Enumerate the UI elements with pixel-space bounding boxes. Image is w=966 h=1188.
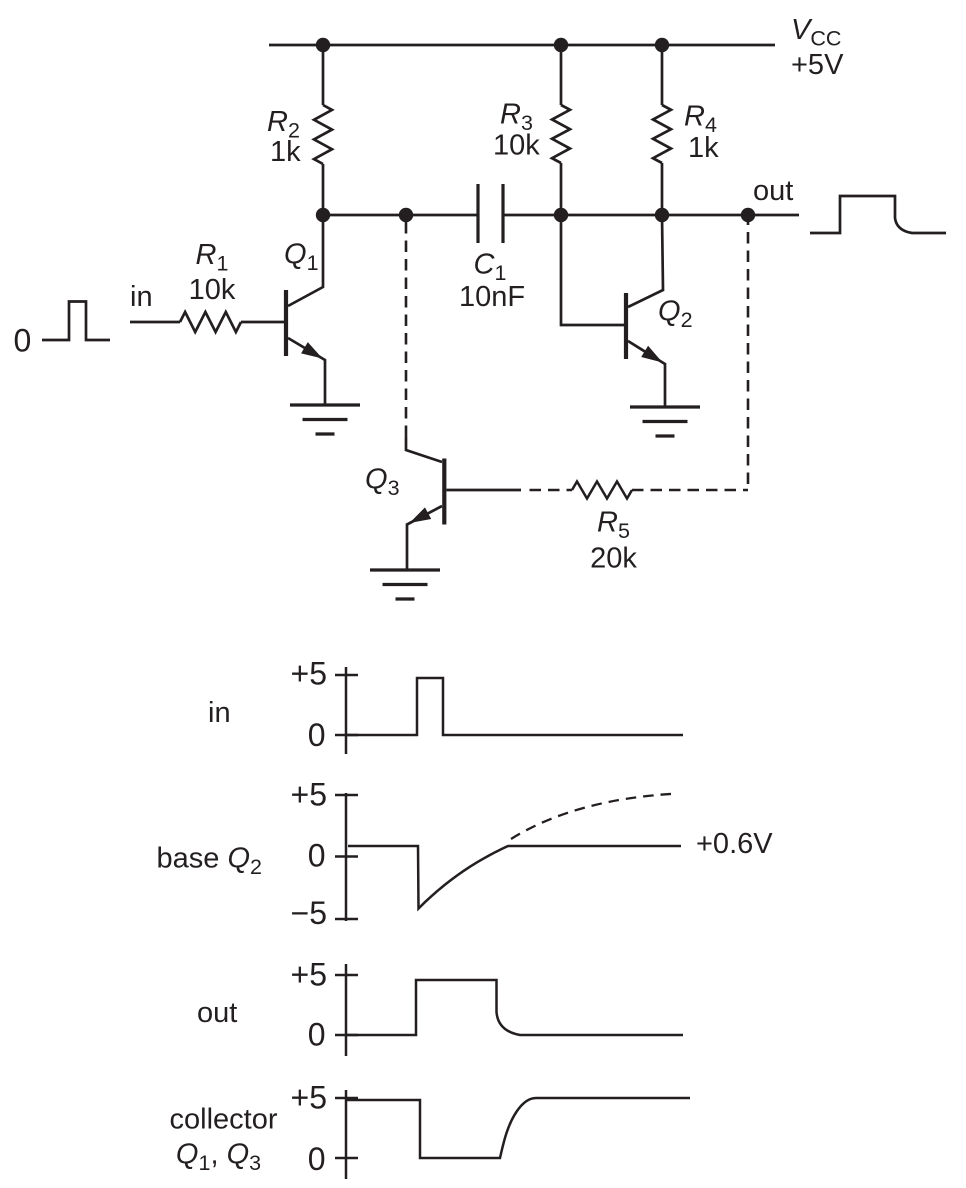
R5 value label 20k	[590, 543, 637, 575]
resistor R4	[653, 105, 671, 163]
waveform 1 +5 label	[291, 656, 327, 692]
C1 label	[474, 249, 507, 286]
transistor Q3 base bar	[442, 459, 446, 525]
svg-text:0: 0	[308, 838, 326, 874]
waveform 2 +0.6V label	[696, 828, 773, 860]
capacitor C1 left plate	[476, 184, 479, 243]
svg-text:+5: +5	[291, 1080, 327, 1116]
svg-text:0: 0	[308, 717, 326, 753]
ground (Q2 emitter)	[630, 407, 700, 436]
R1 label	[196, 239, 229, 276]
out net label	[753, 175, 793, 207]
svg-text:1k: 1k	[270, 136, 301, 168]
waveform 1 +5 tick	[335, 674, 358, 677]
junction dot: Vcc-R2	[316, 38, 330, 52]
svg-text:Q1: Q1	[284, 239, 319, 276]
svg-text:in: in	[208, 697, 231, 729]
transistor Q1 base bar	[284, 290, 288, 356]
waveform 1 0 tick	[335, 734, 358, 737]
wire: input to R1	[130, 321, 180, 324]
junction dot: Vcc-R3	[554, 38, 568, 52]
svg-text:base Q2: base Q2	[157, 843, 262, 880]
Q3 label	[365, 464, 400, 501]
svg-text:20k: 20k	[590, 543, 637, 575]
waveform 3 +5 label	[291, 957, 327, 993]
resistor R5	[572, 482, 632, 499]
waveform 3 0 label	[308, 1017, 326, 1053]
wire (dashed): node A2 to Q3 collector	[405, 222, 408, 437]
wire (dashed): R5 to out node	[632, 489, 748, 492]
waveform 1 label in	[208, 697, 231, 729]
wire: C1 to out terminal	[503, 214, 799, 217]
wire: node A to C1	[323, 214, 478, 217]
svg-text:10nF: 10nF	[459, 281, 525, 313]
transistor Q3 collector	[406, 437, 442, 462]
waveform 2 trace (base Q2)	[348, 846, 681, 909]
waveform 2 axis	[345, 793, 348, 921]
waveform 2 +5 label	[291, 777, 327, 813]
svg-text:Q2: Q2	[658, 296, 693, 333]
waveform 3 0 tick	[335, 1034, 358, 1037]
wire: Vcc to R4	[661, 45, 664, 105]
waveform 3 axis	[345, 964, 348, 1056]
output pulse waveform sketch	[810, 196, 946, 233]
junction dot: node B (C1-R3-Q2 base)	[554, 208, 568, 222]
waveform 4 +5 tick	[335, 1097, 358, 1100]
svg-text:out: out	[753, 175, 793, 207]
resistor R3	[552, 105, 570, 163]
waveform 3 +5 tick	[335, 974, 358, 977]
svg-text:+5: +5	[291, 777, 327, 813]
R3 value label 10k	[493, 130, 540, 162]
wire: Vcc to R2	[322, 45, 325, 105]
Vcc label	[791, 14, 844, 81]
resistor R1	[180, 312, 241, 332]
capacitor C1 right plate	[501, 184, 504, 243]
R2 label	[267, 106, 300, 143]
svg-text:−5: −5	[291, 895, 327, 931]
R4 value label 1k	[688, 132, 719, 164]
svg-text:+5: +5	[291, 656, 327, 692]
R3 label	[500, 99, 533, 136]
waveform 4 +5 label	[291, 1080, 327, 1116]
waveform 2 label base Q2	[157, 843, 262, 880]
waveform 2 dashed recovery curve	[511, 794, 678, 840]
junction dot: node A2 (to Q3 collector)	[399, 208, 413, 222]
transistor Q1 emitter	[288, 338, 325, 405]
waveform 4 label collector	[170, 1104, 278, 1136]
svg-text:0: 0	[308, 1017, 326, 1053]
svg-text:R5: R5	[597, 507, 630, 544]
R2 value label 1k	[270, 136, 301, 168]
waveform 4 0 tick	[335, 1157, 358, 1160]
transistor Q3 emitter	[407, 506, 442, 570]
wire (dashed): out node down to R5	[747, 222, 750, 484]
transistor Q3 emitter arrow	[410, 507, 432, 523]
waveform 4 label Q1,Q3	[176, 1139, 261, 1176]
input 0-level label	[14, 323, 32, 359]
R4 label	[684, 101, 717, 138]
transistor Q2 emitter	[628, 341, 665, 407]
wire: Vcc supply rail	[269, 44, 775, 47]
svg-text:VCC: VCC	[791, 14, 841, 51]
waveform 1 axis	[345, 667, 348, 754]
R1 value label 10k	[189, 274, 236, 306]
waveform 4 0 label	[308, 1141, 326, 1177]
wire: R2 to node A	[322, 164, 325, 215]
resistor R2	[314, 105, 332, 164]
waveform 2 -5 label	[291, 895, 327, 931]
transistor Q2 emitter arrow	[641, 346, 662, 363]
junction dot: out node	[741, 208, 755, 222]
Q1 label	[284, 239, 319, 276]
in net label	[130, 281, 153, 313]
C1 value label 10nF	[459, 281, 525, 313]
svg-text:0: 0	[308, 1141, 326, 1177]
svg-text:+5: +5	[291, 957, 327, 993]
svg-text:+5V: +5V	[791, 49, 844, 81]
wire (dashed): Q3 base to R5	[530, 489, 573, 492]
waveform 2 0 label	[308, 838, 326, 874]
svg-text:10k: 10k	[189, 274, 236, 306]
svg-text:Q1, Q3: Q1, Q3	[176, 1139, 261, 1176]
wire: R1 to Q1 base	[241, 321, 284, 324]
svg-text:collector: collector	[170, 1104, 278, 1136]
R5 label	[597, 507, 630, 544]
svg-text:0: 0	[14, 323, 32, 359]
junction dot: R4-Q2 collector	[655, 208, 669, 222]
svg-text:out: out	[197, 997, 237, 1029]
svg-text:1k: 1k	[688, 132, 719, 164]
transistor Q2 collector	[628, 215, 663, 307]
svg-text:in: in	[130, 281, 153, 313]
Q2 label	[658, 296, 693, 333]
waveform 3 label out	[197, 997, 237, 1029]
junction dot: Q1 collector node A	[316, 208, 330, 222]
wire: node B to Q2 base	[561, 215, 624, 325]
waveform 2 +5 tick	[335, 794, 358, 797]
waveform 1 0 label	[308, 717, 326, 753]
svg-text:10k: 10k	[493, 130, 540, 162]
junction dot: Vcc-R4	[655, 38, 669, 52]
wire: Q3 base	[447, 489, 522, 492]
transistor Q1 collector	[288, 215, 323, 306]
transistor Q2 base bar	[624, 293, 628, 359]
svg-text:Q3: Q3	[365, 464, 400, 501]
ground (Q1 emitter)	[290, 405, 360, 434]
ground (Q3 emitter)	[370, 570, 440, 599]
waveform 3 trace (out pulse)	[346, 980, 683, 1035]
waveform 2 -5 tick	[335, 918, 358, 921]
svg-text:C1: C1	[474, 249, 507, 286]
waveform 2 0 tick	[335, 855, 358, 858]
wire: Vcc to R3	[560, 45, 563, 105]
wire: R3 to node B	[560, 163, 563, 215]
waveform 4 trace (collector Q1 Q3)	[346, 1098, 690, 1158]
transistor Q1 emitter arrow	[301, 342, 322, 358]
waveform 4 axis	[345, 1090, 348, 1179]
svg-text:R1: R1	[196, 239, 229, 276]
svg-text:+0.6V: +0.6V	[696, 828, 773, 860]
wire: R4 to out node	[661, 163, 664, 215]
waveform 1 trace (in pulse)	[346, 678, 683, 735]
input pulse waveform sketch	[42, 302, 110, 341]
